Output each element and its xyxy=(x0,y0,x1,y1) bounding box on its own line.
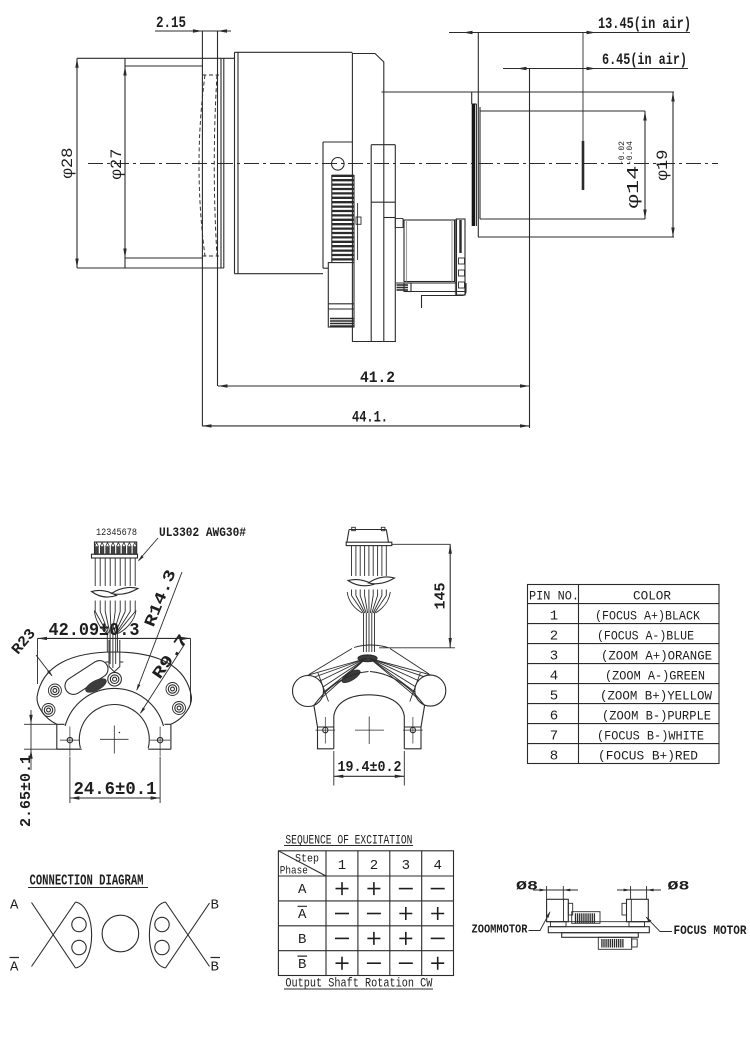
svg-text:Step: Step xyxy=(295,854,319,866)
svg-text:φ14: φ14 xyxy=(625,166,644,209)
svg-text:2: 2 xyxy=(370,858,378,874)
svg-text:44.1.: 44.1. xyxy=(352,409,388,427)
svg-text:-0.04: -0.04 xyxy=(626,141,635,165)
svg-text:42.09±0.3: 42.09±0.3 xyxy=(49,621,140,641)
svg-text:2: 2 xyxy=(550,629,558,645)
svg-text:COLOR: COLOR xyxy=(633,589,671,604)
svg-text:(FOCUS A-)BLUE: (FOCUS A-)BLUE xyxy=(597,629,694,644)
svg-text:(ZOOM B-)PURPLE: (ZOOM B-)PURPLE xyxy=(602,709,711,724)
svg-text:B: B xyxy=(298,957,306,973)
svg-text:Ø8: Ø8 xyxy=(668,879,690,894)
svg-text:(FOCUS A+)BLACK: (FOCUS A+)BLACK xyxy=(595,609,700,624)
svg-text:6.45(in air): 6.45(in air) xyxy=(602,51,687,69)
svg-text:φ27: φ27 xyxy=(108,149,126,180)
svg-text:19.4±0.2: 19.4±0.2 xyxy=(338,759,402,776)
svg-text:B: B xyxy=(211,898,219,914)
svg-text:24.6±0.1: 24.6±0.1 xyxy=(74,780,157,800)
svg-text:8: 8 xyxy=(550,749,558,765)
svg-text:3: 3 xyxy=(402,858,410,874)
svg-text:(ZOOM B+)YELLOW: (ZOOM B+)YELLOW xyxy=(600,689,712,704)
svg-text:(FOCUS B+)RED: (FOCUS B+)RED xyxy=(598,749,698,764)
svg-text:Phase: Phase xyxy=(280,866,308,878)
svg-text:(FOCUS B-)WHITE: (FOCUS B-)WHITE xyxy=(597,729,704,744)
svg-text:SEQUENCE OF EXCITATION: SEQUENCE OF EXCITATION xyxy=(285,834,412,848)
svg-text:A: A xyxy=(298,907,307,923)
svg-text:φ19: φ19 xyxy=(654,150,672,181)
svg-text:3: 3 xyxy=(550,649,558,665)
svg-text:4: 4 xyxy=(550,669,558,685)
svg-text:4: 4 xyxy=(433,858,441,874)
svg-text:12345678: 12345678 xyxy=(96,528,137,539)
svg-text:A: A xyxy=(298,882,307,898)
svg-text:B: B xyxy=(211,960,219,976)
svg-text:A: A xyxy=(10,898,19,914)
svg-text:UL3302 AWG30#: UL3302 AWG30# xyxy=(159,525,246,540)
svg-text:2.65±0.1: 2.65±0.1 xyxy=(18,755,35,827)
svg-text:1: 1 xyxy=(550,609,558,625)
svg-text:(ZOOM A-)GREEN: (ZOOM A-)GREEN xyxy=(605,669,705,684)
svg-text:A: A xyxy=(10,960,19,976)
svg-text:7: 7 xyxy=(550,729,558,745)
svg-text:φ28: φ28 xyxy=(59,148,77,179)
svg-text:2.15: 2.15 xyxy=(156,14,186,32)
svg-text:13.45(in air): 13.45(in air) xyxy=(598,15,691,33)
svg-text:6: 6 xyxy=(550,709,558,725)
svg-text:PIN NO.: PIN NO. xyxy=(529,589,579,604)
svg-text:ZOOMMOTOR: ZOOMMOTOR xyxy=(472,923,529,937)
svg-text:Output Shaft Rotation CW: Output Shaft Rotation CW xyxy=(285,976,432,991)
svg-text:(ZOOM A+)ORANGE: (ZOOM A+)ORANGE xyxy=(601,649,712,664)
svg-text:B: B xyxy=(298,932,306,948)
svg-text:Ø8: Ø8 xyxy=(516,879,538,894)
svg-text:1: 1 xyxy=(338,858,346,874)
svg-text:145: 145 xyxy=(433,583,450,610)
svg-text:CONNECTION DIAGRAM: CONNECTION DIAGRAM xyxy=(30,874,144,890)
svg-text:FOCUS MOTOR: FOCUS MOTOR xyxy=(674,924,747,938)
svg-text:5: 5 xyxy=(550,689,558,705)
svg-text:41.2: 41.2 xyxy=(360,369,395,387)
